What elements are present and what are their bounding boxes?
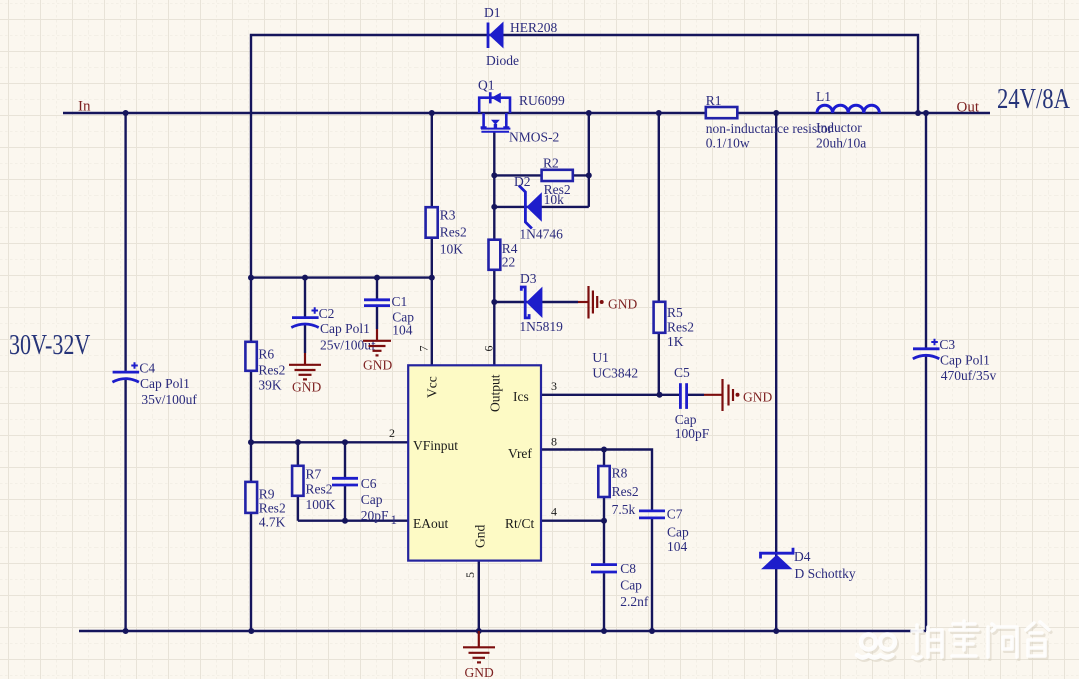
svg-text:R2: R2 <box>543 155 559 170</box>
ground earth pin5 <box>463 631 495 662</box>
junction In rail / R3 <box>429 110 435 116</box>
svg-text:EAout: EAout <box>413 516 448 531</box>
wire C2 lower lead <box>304 324 306 354</box>
svg-text:10K: 10K <box>440 242 464 257</box>
junction gate / D2 <box>491 204 497 210</box>
svg-text:D2: D2 <box>514 174 531 189</box>
junction rail / C7 <box>649 628 655 634</box>
wire C6 lower lead <box>344 486 346 521</box>
wire C4 vertical lower <box>124 378 126 632</box>
svg-text:Res2: Res2 <box>306 482 333 497</box>
svg-text:C4: C4 <box>139 360 155 375</box>
junction rail / D4 <box>773 628 779 634</box>
capacitor C5 <box>674 365 710 441</box>
resistor R3 <box>426 207 467 256</box>
junction Out rail / C3 <box>923 110 929 116</box>
svg-text:Res2: Res2 <box>258 363 285 378</box>
svg-text:GND: GND <box>363 358 392 373</box>
svg-text:1N4746: 1N4746 <box>519 227 563 242</box>
svg-text:100K: 100K <box>306 497 336 512</box>
svg-text:HER208: HER208 <box>510 20 558 35</box>
svg-text:Inductor: Inductor <box>816 120 862 135</box>
svg-text:non-inductance resistor: non-inductance resistor <box>706 121 833 136</box>
wire VFinput branch <box>251 441 408 443</box>
svg-text:R5: R5 <box>667 305 683 320</box>
ground bar C5 <box>704 379 733 411</box>
wire C4 vertical upper <box>124 113 126 371</box>
wire R2 branch <box>494 174 589 176</box>
junction RtCt / C8 <box>601 518 607 524</box>
ground earth C1 <box>363 329 391 355</box>
svg-text:104: 104 <box>392 323 413 338</box>
junction In rail / C4 <box>123 110 129 116</box>
junction VFinput / C6 <box>342 439 348 445</box>
svg-text:7.5k: 7.5k <box>612 502 636 517</box>
junction Vcc wire / C1 <box>374 275 380 281</box>
svg-text:GND: GND <box>608 297 637 312</box>
junction In rail / D4 <box>773 110 779 116</box>
junction VFinput / R6R9 <box>248 439 254 445</box>
diode D3 schottky <box>519 271 563 334</box>
wire C8 lower lead <box>603 573 605 631</box>
capacitor C3 polarized <box>913 337 997 383</box>
wire pin3 Ics to C5 <box>541 394 679 396</box>
svg-text:Res2: Res2 <box>612 484 639 499</box>
svg-text:Cap Pol1: Cap Pol1 <box>320 321 370 336</box>
svg-text:C3: C3 <box>939 337 955 352</box>
junction In rail / R5 <box>656 110 662 116</box>
wire D3 branch <box>494 301 578 303</box>
diode D2 zener <box>514 174 563 242</box>
junction rail / C4 <box>123 628 129 634</box>
svg-text:3: 3 <box>551 379 557 393</box>
svg-text:Out: Out <box>957 100 980 116</box>
svg-text:C8: C8 <box>620 561 636 576</box>
svg-text:470uf/35v: 470uf/35v <box>941 368 997 383</box>
junction Vref / R8 <box>601 447 607 453</box>
svg-text:2: 2 <box>389 426 395 440</box>
wire C3 vertical upper <box>925 113 927 348</box>
capacitor C7 <box>639 507 689 555</box>
wire C5 right lead <box>688 394 704 396</box>
svg-text:In: In <box>78 99 91 115</box>
svg-text:Res2: Res2 <box>440 225 467 240</box>
transistor Q1 <box>479 92 510 132</box>
svg-text:2.2nf: 2.2nf <box>620 594 649 609</box>
junction Ics / R5 <box>657 392 663 398</box>
wire R5 vertical <box>658 113 660 395</box>
svg-text:22: 22 <box>502 255 516 270</box>
svg-text:39K: 39K <box>258 378 282 393</box>
inductor L1 <box>816 89 879 151</box>
svg-text:1: 1 <box>391 512 398 527</box>
capacitor C2 polarized <box>291 306 376 353</box>
svg-text:Q1: Q1 <box>478 78 495 93</box>
resistor R2 <box>542 155 573 207</box>
wire R7 vertical <box>297 442 299 520</box>
svg-text:D4: D4 <box>794 549 811 564</box>
svg-text:C5: C5 <box>674 365 690 380</box>
svg-text:Cap Pol1: Cap Pol1 <box>140 376 190 391</box>
svg-text:C2: C2 <box>319 306 335 321</box>
wire Vref to C7 <box>541 450 652 510</box>
svg-text:Cap: Cap <box>620 578 642 593</box>
svg-text:Output: Output <box>488 374 503 412</box>
resistor R9 <box>245 482 285 530</box>
svg-text:Gnd: Gnd <box>473 525 488 548</box>
resistor R6 <box>245 342 285 393</box>
wire C7 lower lead <box>651 519 653 631</box>
svg-text:C1: C1 <box>392 294 408 309</box>
wire C1 lower lead <box>376 307 378 329</box>
svg-text:NMOS-2: NMOS-2 <box>509 130 559 145</box>
resistor R8 <box>598 466 638 518</box>
svg-text:20uh/10a: 20uh/10a <box>816 136 866 151</box>
svg-text:R9: R9 <box>259 487 275 502</box>
svg-text:GND: GND <box>465 665 494 679</box>
wire D2 branch <box>494 206 589 208</box>
svg-text:Cap Pol1: Cap Pol1 <box>940 353 990 368</box>
svg-text:104: 104 <box>667 539 688 554</box>
svg-text:20pF: 20pF <box>361 508 389 523</box>
svg-text:Cap: Cap <box>667 525 689 540</box>
svg-text:C7: C7 <box>667 507 683 522</box>
svg-text:R8: R8 <box>612 466 628 481</box>
svg-text:Res2: Res2 <box>259 501 286 516</box>
junction rail / R9 <box>248 628 254 634</box>
wire R3/Vcc vertical <box>431 113 433 365</box>
junction rail / C8 <box>601 628 607 634</box>
wire R8 vertical <box>603 450 605 564</box>
wire D4 vertical <box>775 113 777 631</box>
wire C6 upper lead <box>344 442 346 477</box>
svg-text:Res2: Res2 <box>667 320 694 335</box>
watermark logo and text <box>857 621 1051 661</box>
wire Vcc feed horizontal <box>251 276 432 278</box>
wire ground rail <box>79 630 926 632</box>
wire C3 vertical lower <box>925 355 927 632</box>
wire C1 upper lead <box>376 278 378 299</box>
svg-text:6: 6 <box>482 346 496 352</box>
svg-text:D3: D3 <box>520 271 537 286</box>
svg-text:Rt/Ct: Rt/Ct <box>505 516 535 531</box>
svg-text:4: 4 <box>551 505 557 519</box>
wire D1 bypass loop <box>251 35 918 278</box>
junction VFinput / R7 <box>295 439 301 445</box>
svg-text:R6: R6 <box>258 347 274 362</box>
junction Out rail / D1 return <box>915 110 921 116</box>
svg-text:7: 7 <box>417 346 431 352</box>
capacitor C4 polarized <box>112 360 197 407</box>
junction gate / R2 <box>491 172 497 178</box>
svg-text:R3: R3 <box>440 208 456 223</box>
svg-text:10k: 10k <box>544 192 565 207</box>
op-amp U1 UC3842 IC body <box>389 346 638 579</box>
capacitor C6 <box>332 476 397 527</box>
svg-text:D Schottky: D Schottky <box>795 566 856 581</box>
resistor R4 <box>489 240 518 270</box>
capacitor C8 <box>591 561 649 609</box>
svg-text:GND: GND <box>743 390 772 405</box>
ground earth C2 <box>289 353 321 379</box>
svg-text:U1: U1 <box>592 350 609 365</box>
svg-text:30V-32V: 30V-32V <box>9 328 91 360</box>
svg-text:24V/8A: 24V/8A <box>997 83 1070 115</box>
wire C2 upper lead <box>304 278 306 317</box>
svg-text:8: 8 <box>551 435 557 449</box>
svg-text:Ics: Ics <box>513 389 529 404</box>
ground bar D3 <box>578 286 597 319</box>
junction Vcc wire corner <box>248 275 254 281</box>
svg-text:5: 5 <box>463 572 477 578</box>
capacitor C1 <box>364 294 414 338</box>
svg-text:35v/100uf: 35v/100uf <box>141 392 197 407</box>
wire pin5 to ground rail <box>478 561 480 631</box>
junction Vcc wire / C2 <box>302 275 308 281</box>
svg-text:1N5819: 1N5819 <box>519 319 563 334</box>
wire In rail (net In to Out) <box>63 112 990 114</box>
svg-text:Diode: Diode <box>486 53 519 68</box>
diode D4 schottky <box>761 548 856 581</box>
svg-text:Vref: Vref <box>508 446 532 461</box>
wire gate chain vertical (Q1 gate to pin6) <box>493 132 495 365</box>
svg-text:Cap: Cap <box>361 492 383 507</box>
wire R6/R9 vertical <box>250 278 252 631</box>
svg-text:Cap: Cap <box>675 412 697 427</box>
junction gate / D3 <box>491 299 497 305</box>
junction EAout / C6 <box>342 518 348 524</box>
wire x=589 vertical <box>588 113 590 207</box>
resistor R7 <box>292 466 336 512</box>
junction R2 right <box>586 172 592 178</box>
svg-text:100pF: 100pF <box>675 426 710 441</box>
svg-text:GND: GND <box>292 380 321 395</box>
svg-text:4.7K: 4.7K <box>259 515 286 530</box>
svg-text:R7: R7 <box>306 467 322 482</box>
resistor R5 <box>654 302 694 349</box>
diode D1 <box>484 5 558 68</box>
svg-text:UC3842: UC3842 <box>592 366 638 381</box>
resistor R1 <box>706 93 833 151</box>
junction rail / pin5 <box>476 628 482 634</box>
svg-text:1K: 1K <box>667 334 684 349</box>
svg-text:0.1/10w: 0.1/10w <box>706 136 750 151</box>
svg-text:Vcc: Vcc <box>425 376 440 398</box>
junction Vcc wire / R3 <box>429 275 435 281</box>
wire EAout branch <box>298 520 408 522</box>
svg-text:VFinput: VFinput <box>413 438 458 453</box>
svg-text:R1: R1 <box>706 93 722 108</box>
svg-text:D1: D1 <box>484 5 501 20</box>
svg-text:C6: C6 <box>361 476 377 491</box>
wire Rt/Ct branch <box>541 520 604 522</box>
svg-text:L1: L1 <box>816 89 831 104</box>
svg-text:RU6099: RU6099 <box>519 93 565 108</box>
junction In rail / x589 <box>586 110 592 116</box>
